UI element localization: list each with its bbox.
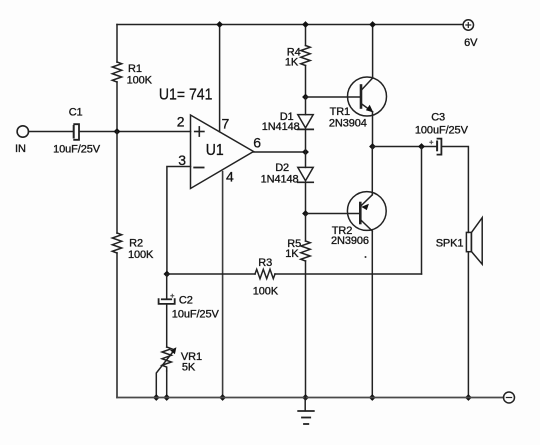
terminal IN [17,126,28,137]
wire pin 7 to top rail [219,25,221,132]
wire R2 bottom to bottom rail [116,253,118,398]
svg-text:2N3904: 2N3904 [329,118,367,130]
wire D1 anode lead [305,97,307,115]
wire R3 to node B [167,273,255,275]
svg-text:IN: IN [15,143,26,155]
junction R4 on top rail [302,21,309,28]
resistor R1 [112,62,121,82]
op-amp U1 [191,115,254,189]
op-amp - input symbol [194,167,203,169]
svg-text:C2: C2 [179,294,193,306]
svg-text:4: 4 [226,169,234,185]
junction speaker on bottom rail [465,394,472,401]
wire R5 bottom to bottom rail [305,261,307,398]
wire R4 bottom to TR1 base node [305,66,307,98]
wire node C to C3 [373,146,437,148]
wire D2 cathode to TR2 base node [305,182,307,213]
svg-text:100K: 100K [127,74,153,86]
svg-text:U1= 741: U1= 741 [159,87,213,104]
svg-text:R3: R3 [258,257,272,269]
resistor R3 [255,269,275,278]
junction TR2 base node [302,210,309,217]
svg-text:100K: 100K [128,249,154,261]
junction node C emitters [369,143,376,150]
wire R1 bottom to node A [116,82,118,132]
svg-text:U1: U1 [206,142,224,159]
svg-text:1K: 1K [285,56,299,68]
junction pin4 on bottom rail [219,394,226,401]
potentiometer VR1 [156,347,176,398]
svg-text:1N4148: 1N4148 [261,174,299,186]
junction VR1 wiper on rail [153,394,160,401]
wire TR1 collector to top rail [372,25,374,79]
node A junction [114,128,121,135]
capacitor C2 [159,294,175,304]
junction feedback node B [164,271,171,278]
wire R5 top lead [305,214,307,242]
wire C3 to speaker corner [442,147,469,233]
wire speaker to bottom rail [467,252,469,398]
wire TR1 emitter down to node C [372,112,374,147]
terminal negative [504,392,515,403]
wire TR1 base [306,96,362,98]
svg-text:SPK1: SPK1 [436,238,464,250]
wire TR2 base [306,213,361,215]
junction TR2 collector on bottom rail [369,394,376,401]
wire TR2 collector down to bottom rail [371,231,373,398]
op-amp + input symbol [195,127,204,136]
wire C1 to op-amp + input [80,131,191,133]
wire bottom rail [117,397,503,399]
resistor R4 [301,46,310,66]
svg-text:3: 3 [178,152,186,168]
wire node A to R2 [116,132,118,234]
svg-text:D2: D2 [275,162,289,174]
svg-text:TR1: TR1 [330,106,350,118]
junction feedback takeoff [418,143,425,150]
wire TR2 emitter up to node C [371,147,373,195]
svg-text:100uF/25V: 100uF/25V [415,124,469,136]
terminal +6V supply [463,20,473,30]
svg-text:10uF/25V: 10uF/25V [172,309,220,321]
wire feedback horizontal to R3 [275,273,422,275]
wire VR1 bottom lead [166,371,168,398]
svg-text:1K: 1K [285,248,299,260]
capacitor C3 [430,139,442,155]
svg-text:R1: R1 [128,63,142,75]
diode D2 1N4148 [298,167,313,182]
svg-text:5K: 5K [182,362,196,374]
junction pin7 on top rail [216,21,223,28]
wire IN to C1 [29,131,73,133]
svg-text:R2: R2 [129,238,143,250]
wire op-amp output pin 6 [254,151,306,153]
stray dot mark [365,256,367,258]
svg-text:2: 2 [177,114,185,130]
svg-text:6V: 6V [464,37,478,49]
junction TR1 base node [302,94,309,101]
junction TR1 collector on top rail [369,21,376,28]
wire node B to C2 [166,274,168,298]
junction ground node on bottom rail [302,394,309,401]
svg-text:C1: C1 [69,107,83,119]
wire pin 4 down to bottom rail [222,172,224,398]
transistor TR2 2N3906 [347,192,386,231]
junction output node [302,149,309,156]
svg-text:1N4148: 1N4148 [262,121,300,133]
svg-text:C3: C3 [431,112,445,124]
wire top supply rail [117,24,463,26]
resistor R5 [301,241,310,261]
wire left rail upper (top rail to R1) [116,25,118,63]
svg-text:100K: 100K [253,285,279,297]
wire R4 top lead from rail [305,25,307,46]
capacitor C1 [74,124,79,140]
svg-text:10uF/25V: 10uF/25V [53,143,101,155]
ground symbol [298,398,314,425]
wire D1 cathode to D2 anode [305,129,307,167]
diode D1 1N4148 [298,115,313,130]
svg-text:7: 7 [222,115,230,131]
speaker SPK1 [466,218,482,265]
wire feedback vertical [421,147,423,275]
junction VR1 bottom on rail [163,394,170,401]
wire C2 to VR1 [166,304,168,347]
svg-text:6: 6 [253,134,261,150]
svg-text:2N3906: 2N3906 [331,235,369,247]
wire op-amp - input stub [167,167,191,275]
transistor TR1 2N3904 [348,77,387,116]
resistor R2 [112,233,121,253]
